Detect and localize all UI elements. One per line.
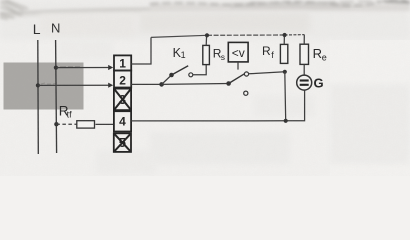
wire terminal 1 up to top rail [131,37,151,64]
terminal block [114,55,131,152]
grey highlight rectangle [4,63,84,110]
node at K1 tap [159,82,164,87]
wire N to terminal 1 with arrow [56,67,109,69]
scan smudge top-left hatch [0,0,28,19]
N supply line [56,40,57,153]
L supply line [37,40,40,154]
wire node up to K1 pivot [162,75,172,84]
wire terminal 4 to generator bottom [131,90,304,121]
switch K1 blade (open) [172,66,189,75]
wire terminal 2 to switches [131,83,161,85]
wire contact to Rf bottom node [249,72,285,74]
resistor Re [300,44,309,64]
undervoltage switch upper contact [244,72,248,76]
terminal 4 [114,111,131,131]
node bottom wire / Rf branch [284,119,288,123]
top rail [151,35,207,37]
actuator link from relay to blade [237,62,239,70]
scan smudge top streak [0,3,410,17]
wire L to terminal 2 with arrow [38,84,109,86]
faint pencil scribble in grey box [41,67,80,85]
wire Rs to top rail [205,35,207,45]
dashed wire node to Rtf [56,123,76,125]
paper mottle [40,12,410,174]
paper background [0,0,410,176]
undervoltage switch blade [229,74,245,84]
node on L to terminal 2 [36,83,40,87]
undervoltage relay box [228,42,248,62]
resistor Rf [280,44,287,63]
terminal 2 [114,71,131,88]
resistor Rs [203,45,210,64]
wire along bottom to undervoltage switch [161,83,228,86]
wire Re to top rail corner [303,35,305,45]
node on N to terminal 1 [54,66,58,70]
wire Rf to top rail [283,35,285,44]
node Rf bottom [283,70,287,74]
wire contact to Rs [193,65,206,75]
terminal 3 (crossed out) [114,89,131,111]
wire Re to generator [303,64,305,75]
switch K1 pivot [169,73,174,78]
wire Rf bottom node down [284,72,287,121]
undervoltage switch pivot [226,81,231,86]
terminal 5 (crossed out) [114,133,131,152]
resistor Rtf [77,121,95,128]
switch K1 fixed contact [189,73,193,77]
node Rf top [283,33,287,37]
node Rs top [205,33,209,37]
scan noise overlay [0,0,410,176]
undervoltage switch lower contact [244,91,248,95]
node on N for Rtf branch [54,122,58,126]
terminal 1 [114,55,131,70]
wire Rtf to terminal 4 [96,123,115,125]
generator G (DC source) [297,75,312,90]
